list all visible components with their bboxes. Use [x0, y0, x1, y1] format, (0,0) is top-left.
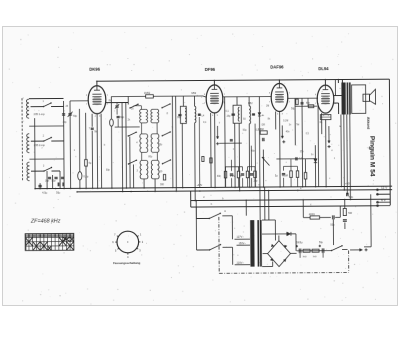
svg-text:0,1M: 0,1M — [282, 175, 287, 178]
svg-text:Tal: Tal — [296, 124, 299, 126]
svg-text:3kΩ: 3kΩ — [303, 256, 307, 258]
svg-text:Fassungsschaltung: Fassungsschaltung — [113, 261, 140, 265]
svg-text:50µ: 50µ — [319, 242, 324, 244]
svg-text:1M: 1M — [266, 106, 269, 108]
svg-text:DK96: DK96 — [89, 67, 100, 72]
svg-text:DL94: DL94 — [318, 66, 329, 71]
svg-text:4,5µ: 4,5µ — [42, 191, 48, 195]
svg-text:0,2M: 0,2M — [256, 130, 261, 132]
svg-text:235 1-mp: 235 1-mp — [34, 112, 46, 116]
svg-text:DAF96: DAF96 — [270, 64, 284, 69]
svg-text:DR: DR — [262, 125, 266, 127]
svg-text:400Ω: 400Ω — [309, 213, 315, 216]
svg-text:150V~: 150V~ — [239, 242, 247, 245]
svg-text:50µ: 50µ — [243, 130, 248, 132]
svg-text:50p: 50p — [52, 180, 57, 183]
svg-text:6 V: 6 V — [381, 198, 386, 202]
svg-text:235 2-mp: 235 2-mp — [34, 143, 46, 147]
svg-text:30p: 30p — [45, 180, 50, 183]
svg-text:Akkord: Akkord — [366, 117, 370, 129]
svg-text:12 V: 12 V — [381, 186, 387, 190]
svg-text:5000µ: 5000µ — [296, 242, 303, 244]
svg-text:50µ: 50µ — [56, 192, 61, 195]
svg-text:220V~: 220V~ — [237, 261, 245, 264]
svg-text:+62V: +62V — [197, 184, 203, 187]
svg-text:50µ: 50µ — [330, 224, 335, 227]
svg-text:127V~: 127V~ — [236, 236, 244, 239]
svg-text:ZF=468 kHz: ZF=468 kHz — [30, 218, 61, 224]
svg-text:+90V: +90V — [345, 182, 351, 185]
svg-text:Pinguin M 54: Pinguin M 54 — [368, 136, 375, 177]
svg-text:40n: 40n — [217, 175, 222, 178]
svg-text:DF96: DF96 — [205, 67, 216, 72]
svg-text:70p: 70p — [73, 114, 78, 118]
svg-text:0,2M: 0,2M — [230, 175, 235, 178]
svg-text:1M52: 1M52 — [144, 92, 151, 95]
svg-text:M52: M52 — [191, 92, 196, 95]
svg-text:0,1M: 0,1M — [283, 120, 288, 122]
svg-text:50p: 50p — [349, 195, 354, 199]
svg-text:50µ: 50µ — [291, 107, 296, 110]
svg-text:1kΩ: 1kΩ — [313, 256, 317, 258]
